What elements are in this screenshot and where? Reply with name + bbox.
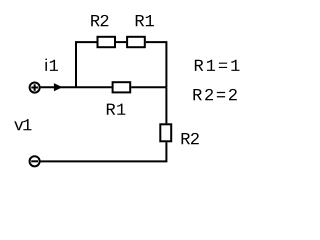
wire: from R2 bottom to bottom rail back to v1 terminal bbox=[41, 142, 167, 161]
label R2 (top left resistor) bbox=[91, 15, 108, 26]
annotation R1=1 bbox=[195, 60, 240, 71]
label R2 (right vertical resistor) bbox=[182, 133, 199, 144]
resistor R2 (right vertical box) bbox=[160, 124, 171, 141]
wire: middle branch from source to R1 bbox=[41, 86, 112, 88]
wire: left branch from node A up to top rail bbox=[76, 42, 97, 87]
wire: top rail from R1 to right rail down to node B bbox=[146, 42, 167, 87]
label i1 (source current) bbox=[45, 59, 58, 71]
resistor R1 (top right box) bbox=[127, 37, 145, 47]
wire: right rail from node B to R2 top bbox=[165, 87, 167, 123]
label R1 (middle resistor) bbox=[107, 104, 126, 115]
wire: middle branch from R1 to node B bbox=[131, 86, 166, 88]
label v1 (terminal voltage) bbox=[14, 119, 31, 130]
current direction arrow for i1 bbox=[54, 83, 63, 91]
resistor R1 (middle box) bbox=[113, 82, 131, 92]
label R1 (top right resistor) bbox=[136, 15, 154, 26]
terminal - (negative terminal, v1 reference) bbox=[30, 156, 40, 166]
terminal + (positive terminal of source i1) bbox=[30, 83, 40, 93]
wire: top rail between R2 and R1 bbox=[116, 41, 126, 43]
resistor R2 (top left box) bbox=[98, 37, 116, 47]
annotation R2=2 bbox=[193, 89, 236, 100]
